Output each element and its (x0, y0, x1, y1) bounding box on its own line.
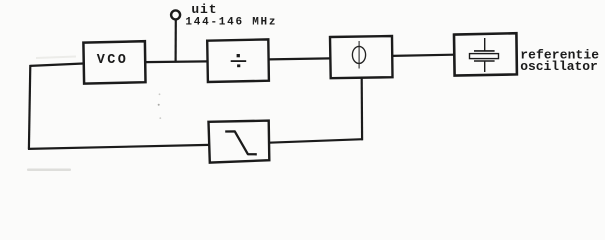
crystal body (470, 54, 499, 59)
wire output terminal lead (175, 19, 177, 62)
crystal top plate (474, 50, 495, 52)
svg-text:144-146 MHz: 144-146 MHz (185, 17, 277, 29)
wire filter output to corner (269, 139, 363, 143)
wire divider to phase comparator (269, 58, 330, 59)
wire corner up to phase comparator (361, 78, 364, 141)
svg-text:uit: uit (191, 2, 217, 17)
crystal bottom lead (484, 62, 486, 73)
phase comparator symbol line (358, 41, 360, 69)
crystal bottom plate (474, 60, 495, 62)
wire feedback bottom horizontal (28, 145, 209, 149)
block VCO (83, 41, 145, 83)
output terminal (171, 10, 180, 19)
wire VCO to divider (146, 60, 208, 63)
block loop filter (209, 121, 270, 163)
loop filter symbol (225, 131, 257, 154)
divider symbol top dot (237, 54, 240, 57)
wire VCO left to feedback corner (30, 64, 83, 66)
block reference oscillator (454, 33, 517, 75)
wire feedback left vertical (29, 65, 30, 149)
block divider (207, 39, 269, 82)
block phase comparator (330, 36, 393, 78)
divider symbol bar (231, 60, 247, 62)
svg-text:VCO: VCO (97, 53, 129, 68)
wire phase comparator to reference oscillator (392, 55, 453, 56)
phase comparator symbol circle (352, 46, 365, 63)
divider symbol bottom dot (237, 64, 240, 67)
svg-text:oscillator: oscillator (520, 59, 598, 74)
crystal top lead (484, 38, 486, 51)
